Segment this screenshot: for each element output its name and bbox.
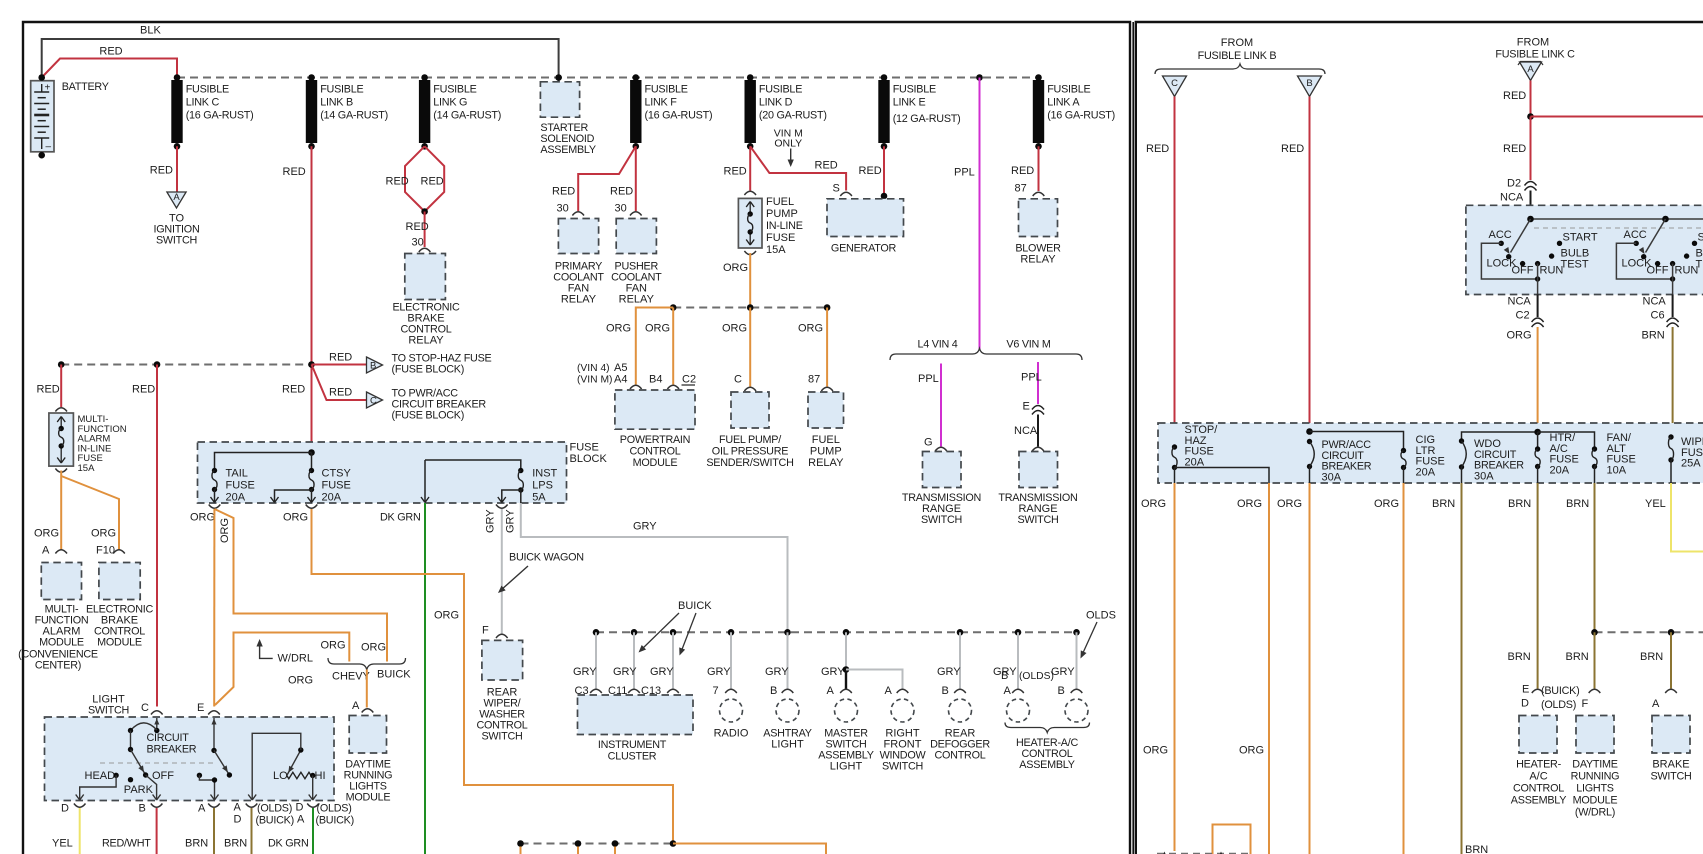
wire RED to connector D2: [1503, 117, 1531, 181]
light switch box: [45, 694, 335, 801]
svg-text:LO: LO: [273, 770, 288, 782]
svg-text:OIL PRESSURE: OIL PRESSURE: [712, 446, 788, 458]
wire GRY to rear wiper switch: [496, 505, 508, 634]
svg-text:ORG: ORG: [1277, 498, 1302, 510]
svg-text:MODULE: MODULE: [633, 457, 678, 469]
svg-text:(14 GA-RUST): (14 GA-RUST): [320, 110, 388, 122]
node gry bus defog: [957, 629, 964, 636]
svg-text:BRN: BRN: [1642, 330, 1665, 342]
master switch assembly light lamp: [818, 689, 873, 772]
FROM FUSIBLE LINK C header: [1495, 37, 1575, 66]
light switch wire HEAD to D: [76, 775, 116, 800]
wire ORG stop/haz out 1: [1141, 483, 1175, 851]
svg-text:CIRCUIT: CIRCUIT: [147, 732, 190, 744]
svg-text:CTSY: CTSY: [322, 468, 352, 480]
connector E NCA (V6): [1023, 401, 1045, 415]
svg-text:(14 GA-RUST): (14 GA-RUST): [433, 110, 501, 122]
multi-function alarm in-line fuse: [49, 408, 127, 474]
svg-text:5A: 5A: [532, 492, 546, 504]
svg-text:A: A: [1004, 685, 1012, 697]
tail fuse 20A: [211, 453, 312, 504]
svg-text:IN-LINE: IN-LINE: [766, 220, 803, 232]
svg-text:CONTROL: CONTROL: [629, 446, 680, 458]
node junction link D: [747, 74, 754, 81]
node red bus B: [154, 361, 161, 368]
svg-text:E: E: [197, 702, 204, 714]
svg-text:FUSE: FUSE: [322, 480, 351, 492]
svg-text:15A: 15A: [78, 463, 96, 474]
svg-text:A4: A4: [614, 374, 627, 386]
svg-text:(20 GA-RUST): (20 GA-RUST): [759, 110, 827, 122]
svg-text:GRY: GRY: [633, 521, 657, 533]
svg-text:GRY: GRY: [707, 666, 731, 678]
svg-text:DAYTIME: DAYTIME: [1572, 759, 1617, 771]
svg-text:RED: RED: [329, 352, 352, 364]
svg-text:(16 GA-RUST): (16 GA-RUST): [645, 110, 713, 122]
svg-text:RELAY: RELAY: [1020, 254, 1056, 266]
svg-text:OFF: OFF: [152, 770, 174, 782]
svg-text:D: D: [61, 803, 69, 815]
wire ORG bottom bus exit right: [673, 844, 826, 854]
wire NCA to transmission range switch (V6): [1014, 415, 1038, 447]
wire RED bus to multifunction fuse: [37, 365, 62, 408]
svg-text:S: S: [833, 183, 840, 195]
svg-text:B4: B4: [649, 374, 662, 386]
light switch terminal E: [197, 702, 220, 715]
svg-text:ORG: ORG: [1507, 330, 1532, 342]
svg-text:A/C: A/C: [1529, 771, 1547, 783]
light switch terminal A/D: [234, 802, 294, 827]
label ORG chevy: [321, 640, 346, 652]
svg-text:(OLDS): (OLDS): [317, 803, 352, 815]
svg-text:C2: C2: [1516, 310, 1530, 322]
svg-text:BRN: BRN: [224, 838, 247, 850]
svg-text:BRN: BRN: [1566, 651, 1589, 663]
wire BRN wdo out: [1432, 483, 1488, 854]
node brn bus drl: [1591, 629, 1598, 636]
node gry bus ashtray: [784, 629, 791, 636]
fusible link C: [171, 80, 253, 150]
powertrain control module: [577, 362, 696, 469]
ctsy fuse 20A: [271, 453, 352, 504]
svg-text:PUMP: PUMP: [810, 446, 842, 458]
wire BRN from light switch A/D: [224, 808, 252, 854]
stop/haz fuse 20A: [1172, 424, 1269, 483]
svg-text:F: F: [1582, 698, 1589, 710]
svg-text:PPL: PPL: [1021, 372, 1042, 384]
daytime running lights module (left page): [344, 700, 393, 804]
wire RED link D to fuel pump fuse: [724, 146, 751, 190]
svg-text:D: D: [234, 814, 242, 826]
svg-text:E: E: [1522, 684, 1529, 696]
svg-text:SWITCH: SWITCH: [481, 731, 522, 743]
svg-text:BRN: BRN: [1640, 651, 1663, 663]
svg-text:RED: RED: [329, 387, 352, 399]
light switch circuit breaker: [128, 718, 197, 756]
svg-text:GRY: GRY: [573, 666, 597, 678]
svg-text:A: A: [234, 802, 242, 814]
svg-text:OLDS: OLDS: [1086, 610, 1116, 622]
svg-text:D: D: [1521, 698, 1529, 710]
svg-text:START: START: [1563, 232, 1598, 244]
light switch wire HI to D/A: [309, 776, 317, 801]
ignition switch feed rail: [1527, 216, 1703, 223]
daytime running lights module (right page): [1571, 689, 1620, 818]
wire DK GRN from fuse block: [380, 460, 429, 854]
node gry bus c11: [631, 629, 638, 636]
battery: [31, 74, 109, 158]
svg-text:BREAKER: BREAKER: [147, 744, 197, 756]
svg-text:ONLY: ONLY: [774, 137, 802, 149]
svg-text:ORG: ORG: [1141, 498, 1166, 510]
svg-text:FUSE: FUSE: [226, 480, 255, 492]
wire ORG stop/haz out 2: [1237, 483, 1269, 854]
svg-text:TEST: TEST: [1696, 259, 1703, 271]
wire ORG fuse to electronic brake control module: [61, 476, 119, 557]
svg-text:E: E: [1023, 401, 1030, 413]
svg-text:GRY: GRY: [613, 666, 637, 678]
top feed bus (dashed): [177, 77, 1039, 79]
svg-text:BLK: BLK: [140, 25, 161, 37]
node bottom right 2: [1218, 852, 1223, 854]
wire GRY drop C11: [608, 632, 637, 697]
svg-text:7: 7: [713, 685, 719, 697]
svg-text:RED: RED: [1011, 165, 1034, 177]
node fuse block red feed: [308, 449, 315, 456]
svg-text:A: A: [885, 685, 893, 697]
svg-text:BATTERY: BATTERY: [62, 81, 109, 93]
svg-text:BUICK: BUICK: [678, 600, 712, 612]
wire GRY drop B: [937, 632, 961, 697]
svg-text:RELAY: RELAY: [561, 294, 597, 306]
svg-text:L4 VIN 4: L4 VIN 4: [917, 339, 957, 351]
L4 VIN4 / V6 VINM brace: [890, 339, 1082, 361]
fuel pump relay: [808, 374, 844, 470]
FROM FUSIBLE LINK B header: [1155, 37, 1325, 74]
svg-text:ASSEMBLY: ASSEMBLY: [1019, 759, 1074, 771]
svg-text:D2: D2: [1507, 178, 1521, 190]
node gry bus radio: [728, 629, 735, 636]
svg-text:F: F: [482, 625, 489, 637]
svg-text:B: B: [139, 803, 146, 815]
wire BRN fan/alt out: [1566, 483, 1595, 632]
wire RED diamond below link G: [386, 146, 445, 215]
wire RED bus to light switch C: [132, 365, 157, 707]
svg-text:RED: RED: [406, 221, 429, 233]
label RED at fuse block feed: [282, 384, 305, 396]
svg-text:(BUICK): (BUICK): [316, 815, 354, 827]
light switch PARK contact: [124, 777, 154, 796]
svg-text:RED: RED: [150, 165, 173, 177]
svg-text:BRN: BRN: [1465, 844, 1488, 854]
svg-text:(VIN M): (VIN M): [577, 375, 612, 386]
svg-text:INSTRUMENT: INSTRUMENT: [598, 739, 667, 751]
svg-text:FUEL PUMP/: FUEL PUMP/: [719, 434, 781, 446]
wire RED link F to primary coolant fan relay: [552, 146, 636, 214]
node brn bus brake: [1668, 629, 1675, 636]
svg-text:ASSEMBLY: ASSEMBLY: [1511, 795, 1566, 807]
wire BRN to daytime running lights module: [1566, 632, 1595, 688]
node ORG bus B4: [670, 304, 677, 311]
off-page triangle C (to pwr/acc circuit breaker): [312, 365, 487, 422]
svg-text:FUSIBLE: FUSIBLE: [1047, 84, 1090, 96]
svg-text:A: A: [827, 685, 835, 697]
svg-text:BUICK WAGON: BUICK WAGON: [509, 552, 584, 564]
svg-text:20A: 20A: [1416, 466, 1436, 478]
svg-text:(16 GA-RUST): (16 GA-RUST): [186, 110, 254, 122]
wire GRY drop C13: [641, 632, 674, 697]
svg-text:LPS: LPS: [532, 480, 553, 492]
svg-text:NCA: NCA: [1014, 425, 1038, 437]
node red bus C: [308, 361, 315, 368]
svg-text:(BUICK): (BUICK): [1541, 685, 1579, 697]
svg-text:BRAKE: BRAKE: [1652, 759, 1689, 771]
wire RED triangle A down: [1503, 81, 1531, 117]
svg-text:(BUICK): (BUICK): [256, 815, 294, 827]
svg-text:(VIN 4): (VIN 4): [577, 363, 610, 374]
light switch terminal D: [61, 803, 86, 815]
svg-text:ASSEMBLY: ASSEMBLY: [540, 144, 595, 156]
svg-text:(W/DRL): (W/DRL): [1575, 807, 1615, 819]
ORG loop stub bottom right: [1213, 825, 1251, 854]
svg-text:BRN: BRN: [185, 838, 208, 850]
svg-text:FUSIBLE: FUSIBLE: [186, 84, 229, 96]
wire GRY drop B: [1051, 632, 1077, 697]
wire ORG bus to fuel pump relay: [798, 308, 827, 387]
svg-text:ORG: ORG: [321, 640, 346, 652]
svg-text:FUSIBLE: FUSIBLE: [759, 84, 802, 96]
fuel pump/oil pressure sender-switch: [706, 374, 793, 470]
wire RED link C to triangle A: [150, 146, 177, 192]
svg-text:–: –: [46, 142, 52, 153]
label S generator terminal: [833, 183, 852, 197]
svg-text:A: A: [297, 814, 305, 826]
svg-text:GRY: GRY: [1051, 666, 1075, 678]
svg-text:POWERTRAIN: POWERTRAIN: [620, 434, 690, 446]
svg-text:SWITCH: SWITCH: [1017, 514, 1058, 526]
svg-text:PARK: PARK: [124, 784, 154, 796]
node red bus A: [58, 361, 65, 368]
svg-text:SWITCH: SWITCH: [921, 514, 962, 526]
svg-text:MODULE: MODULE: [97, 637, 142, 649]
fuse block (right page): [1158, 423, 1703, 483]
wire NCA into ignition switch: [1530, 191, 1532, 220]
svg-text:RED: RED: [37, 384, 60, 396]
wire ORG cig ltr out: [1374, 483, 1404, 854]
node RED branch: [1527, 113, 1534, 120]
wire RED branch to page edge: [1531, 116, 1703, 118]
generator: [827, 199, 904, 255]
bottom ORG bus (dashed): [521, 843, 674, 845]
svg-text:RED: RED: [282, 384, 305, 396]
wire RED triangle C to stop/haz fuse: [1146, 97, 1175, 448]
svg-text:G: G: [924, 437, 933, 449]
svg-text:ORG: ORG: [798, 323, 823, 335]
svg-text:FUSIBLE LINK C: FUSIBLE LINK C: [1495, 49, 1575, 61]
svg-text:GENERATOR: GENERATOR: [831, 243, 897, 255]
wire ORG bus to PCM B4/C2: [645, 308, 673, 385]
svg-text:30: 30: [615, 203, 627, 215]
svg-text:NCA: NCA: [1508, 296, 1532, 308]
svg-text:RELAY: RELAY: [808, 457, 844, 469]
label ORG rheostat feed: [288, 675, 313, 687]
svg-text:30A: 30A: [1474, 470, 1494, 482]
wire RED link F to pusher coolant fan relay: [610, 146, 636, 214]
svg-text:B: B: [1058, 685, 1065, 697]
wire PPL to connector E (V6): [1021, 362, 1042, 404]
label OFF: [152, 770, 174, 782]
wire ORG fuse to multi-function alarm module: [34, 471, 61, 557]
svg-text:LIGHT: LIGHT: [771, 739, 804, 751]
node junction starter: [555, 74, 562, 81]
svg-text:CLUSTER: CLUSTER: [608, 751, 657, 763]
electronic brake control relay: [392, 248, 460, 346]
svg-text:RED: RED: [724, 166, 747, 178]
wire ORG stub 2: [577, 847, 579, 854]
VIN M ONLY note: [774, 128, 803, 168]
red distribution bus (dashed): [61, 364, 311, 366]
transmission range switch (L4): [902, 437, 981, 527]
svg-text:RADIO: RADIO: [714, 728, 749, 740]
svg-text:START: START: [1698, 232, 1703, 244]
svg-text:LINK D: LINK D: [759, 97, 793, 109]
svg-text:BRN: BRN: [1566, 498, 1589, 510]
svg-text:TEST: TEST: [1561, 259, 1589, 271]
ORG distribution bus (dashed): [673, 307, 827, 309]
svg-text:20A: 20A: [1185, 456, 1205, 468]
svg-text:10A: 10A: [1607, 464, 1627, 476]
wire ORG stub 3: [614, 847, 616, 854]
wire ORG brace to daytime running lights module: [366, 670, 368, 708]
rear wiper/washer control switch: [476, 625, 527, 743]
svg-text:RED: RED: [610, 186, 633, 198]
svg-text:ACC: ACC: [1624, 229, 1647, 241]
svg-text:ORG: ORG: [219, 518, 231, 543]
svg-text:FUEL: FUEL: [812, 434, 840, 446]
svg-text:SWITCH: SWITCH: [88, 705, 129, 717]
svg-text:TAIL: TAIL: [226, 468, 248, 480]
node bottom bus stub3: [612, 840, 619, 847]
light switch terminal A: [198, 803, 220, 815]
node junction link C: [174, 74, 181, 81]
svg-text:CONTROL: CONTROL: [1513, 783, 1564, 795]
node junction link F: [633, 74, 640, 81]
svg-text:RUNNING: RUNNING: [1571, 771, 1620, 783]
ashtray light lamp: [763, 689, 811, 750]
fan/alt fuse 10A: [1538, 432, 1636, 483]
svg-text:LINK A: LINK A: [1047, 97, 1080, 109]
svg-text:F10: F10: [96, 545, 115, 557]
svg-text:GRY: GRY: [650, 666, 674, 678]
svg-text:FUSE: FUSE: [766, 232, 795, 244]
wire GRY drop master switch A: [821, 632, 849, 697]
wire RED link E to generator: [859, 146, 888, 199]
wire ORG fuse to bus: [723, 253, 750, 308]
wire ORG bus to fuel pump/oil pressure switch: [722, 308, 750, 387]
wire ORG tail to light switch E (direct): [209, 505, 221, 707]
svg-text:DK GRN: DK GRN: [268, 838, 309, 850]
svg-text:HI: HI: [315, 770, 326, 782]
inst lps fuse 5A: [425, 460, 558, 504]
svg-text:RED: RED: [132, 384, 155, 396]
svg-text:CENTER): CENTER): [35, 660, 81, 672]
svg-text:ORG: ORG: [288, 675, 313, 687]
svg-text:RED: RED: [552, 186, 575, 198]
node junction link E: [881, 74, 888, 81]
wire ORG ctsy to bottom bus: [306, 505, 673, 844]
svg-text:RED: RED: [1146, 143, 1169, 155]
wire BRN htr out to heater assembly: [1508, 483, 1538, 689]
GRY distribution bus (dashed): [596, 631, 1077, 633]
node gry bus c13: [670, 629, 677, 636]
svg-text:SWITCH: SWITCH: [882, 761, 923, 773]
right page border frame: [1133, 22, 1703, 854]
wire GRY drop B: [765, 632, 789, 697]
BUICK note: [639, 600, 713, 656]
svg-text:RELAY: RELAY: [408, 335, 444, 347]
svg-text:30: 30: [557, 203, 569, 215]
label ORG ctsy output: [283, 512, 308, 524]
svg-text:BRN: BRN: [1432, 498, 1455, 510]
svg-text:A: A: [42, 545, 50, 557]
light switch arm E: [211, 718, 232, 778]
svg-text:BLOCK: BLOCK: [570, 453, 608, 465]
svg-text:30A: 30A: [1322, 471, 1342, 483]
heater a/c control assembly (right page): [1511, 684, 1580, 807]
ignition switch contacts (run/acc set 2): [1616, 219, 1703, 342]
fusible link D: [745, 80, 827, 150]
svg-text:FUSIBLE: FUSIBLE: [320, 84, 363, 96]
fusible link G: [419, 80, 501, 150]
svg-text:NCA: NCA: [1643, 296, 1667, 308]
svg-text:30: 30: [412, 237, 424, 249]
wire RED link A to blower relay: [1011, 146, 1039, 194]
svg-text:CHEVY: CHEVY: [332, 671, 371, 683]
off-page triangle A (to ignition switch): [154, 192, 200, 247]
wire BRN ignition C6 to wiper fuse: [1671, 327, 1673, 437]
svg-text:B: B: [942, 685, 949, 697]
pusher coolant fan relay: [611, 212, 662, 306]
wire RED link B down to fuse block: [283, 146, 312, 452]
wire BRN from light switch A: [185, 808, 214, 854]
svg-text:FROM: FROM: [1221, 37, 1253, 49]
svg-text:A: A: [198, 803, 206, 815]
W/DRL note: [256, 639, 313, 665]
svg-text:PPL: PPL: [918, 373, 939, 385]
svg-text:FUSIBLE: FUSIBLE: [433, 84, 476, 96]
wire YEL wiper out: [1645, 483, 1703, 552]
svg-text:(FUSE BLOCK): (FUSE BLOCK): [392, 410, 465, 422]
light switch HEAD contact: [85, 770, 119, 782]
wire DK GRN from light switch D/A: [268, 808, 313, 854]
svg-text:25A: 25A: [1681, 458, 1701, 470]
svg-text:LINK E: LINK E: [893, 97, 926, 109]
svg-text:PPL: PPL: [954, 167, 975, 179]
svg-text:MODULE: MODULE: [346, 792, 391, 804]
svg-text:GRY: GRY: [937, 666, 961, 678]
wiper fuse 25A: [1668, 434, 1703, 483]
svg-text:BUICK: BUICK: [377, 669, 411, 681]
fusible link E: [878, 80, 960, 150]
svg-text:D: D: [296, 802, 304, 814]
svg-text:FUSIBLE: FUSIBLE: [893, 84, 936, 96]
svg-text:LIGHT: LIGHT: [830, 761, 863, 773]
svg-text:OFF: OFF: [1647, 265, 1669, 277]
svg-text:RED: RED: [283, 166, 306, 178]
svg-text:GRY: GRY: [765, 666, 789, 678]
svg-text:20A: 20A: [226, 492, 246, 504]
svg-text:ORG: ORG: [434, 610, 459, 622]
